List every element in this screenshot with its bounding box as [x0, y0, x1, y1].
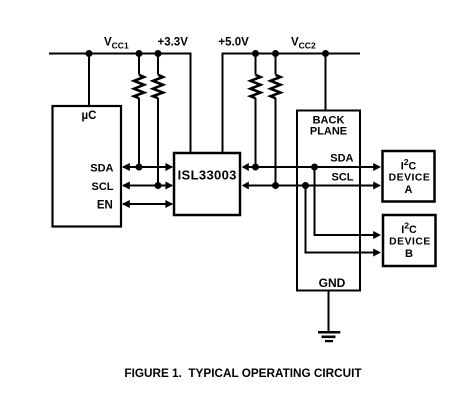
wire VCC1 rail (left supply rail, turns down to ISL33003 +3.3V pin)	[49, 54, 191, 154]
box ISL33003 U1	[174, 153, 240, 215]
wire SDA (ISL33003 through BACK PLANE to I2C DEVICE A)	[243, 166, 379, 168]
junction VCC2/R-SDA2	[252, 50, 259, 57]
svg-text:DEVICE: DEVICE	[389, 173, 431, 184]
label I2C DEVICE A	[389, 157, 431, 196]
wire SCL (ISL33003 through BACK PLANE to I2C DEVICE A)	[243, 185, 379, 187]
junction R-SDA1/SDA	[136, 164, 143, 171]
label BACK PLANE	[310, 114, 347, 137]
box I2C DEVICE B	[383, 215, 436, 266]
arrowhead SCL into ISL33003 right	[242, 182, 249, 190]
junction VCC1/R-SCL1	[155, 50, 162, 57]
arrowhead EN into uC	[122, 200, 130, 208]
arrowhead EN into ISL33003 left	[165, 200, 173, 208]
wire SCL (uC to ISL33003)	[123, 185, 172, 187]
box BACK PLANE	[297, 111, 360, 291]
arrowhead SDA into uC	[122, 163, 130, 171]
arrowhead SCL into I2C DEVICE B	[373, 249, 381, 257]
wire EN (uC to ISL33003)	[123, 203, 172, 205]
junction VCC1/R-SDA1	[136, 50, 143, 57]
junction SDA/device-B branch	[311, 164, 318, 171]
svg-text:ISL33003: ISL33003	[178, 168, 237, 183]
box uC	[53, 106, 122, 227]
ground symbol	[318, 332, 340, 341]
svg-text:SDA: SDA	[90, 163, 113, 175]
svg-text:SCL: SCL	[92, 181, 114, 193]
arrowheads	[122, 163, 381, 257]
arrowhead SCL into uC	[122, 182, 130, 190]
svg-text:EN: EN	[97, 200, 113, 212]
wire VCC1 to uC supply	[88, 54, 90, 107]
svg-text:µC: µC	[82, 110, 97, 122]
svg-text:B: B	[405, 248, 413, 260]
junction VCC2/R-SCL2	[272, 50, 279, 57]
svg-text:FIGURE 1. TYPICAL OPERATING C: FIGURE 1. TYPICAL OPERATING CIRCUIT	[124, 367, 362, 380]
junction SCL/device-B branch	[302, 182, 309, 189]
junction VCC2/backplane	[322, 50, 329, 57]
svg-text:GND: GND	[319, 276, 346, 290]
arrowhead SDA into I2C DEVICE B	[373, 231, 381, 239]
resistor R-SDA2 (VCC2 pull-up on SDA)	[251, 54, 261, 168]
wire BACK PLANE GND to ground	[328, 291, 330, 333]
arrowhead SDA into ISL33003 right	[242, 163, 249, 171]
svg-text:A: A	[405, 184, 413, 196]
wire SDA (uC to ISL33003)	[123, 166, 172, 168]
svg-text:DEVICE: DEVICE	[389, 237, 431, 248]
box I2C DEVICE A	[383, 151, 435, 202]
svg-text:+5.0V: +5.0V	[218, 37, 249, 49]
svg-text:+3.3V: +3.3V	[158, 37, 189, 49]
arrowhead SCL into I2C DEVICE A	[373, 182, 381, 190]
junction R-SCL1/SCL	[155, 182, 162, 189]
junction R-SDA2/SDA	[252, 164, 259, 171]
wire SDA branch to I2C DEVICE B	[315, 167, 380, 235]
label I2C DEVICE B	[389, 221, 431, 260]
arrowhead SDA into I2C DEVICE A	[373, 163, 381, 171]
arrowhead SCL into ISL33003 left	[165, 182, 173, 190]
resistor R-SCL1 (VCC1 pull-up on SCL)	[153, 54, 163, 186]
wire VCC2 rail (right supply rail, left end turns down to ISL33003 +5.0V pin)	[223, 54, 361, 154]
junction R-SCL2/SCL	[272, 182, 279, 189]
arrowhead SDA into ISL33003 left	[165, 163, 173, 171]
junction VCC1/uC	[86, 50, 93, 57]
wire VCC2 drop to BACK PLANE top	[325, 54, 327, 111]
svg-text:SDA: SDA	[330, 153, 353, 165]
wire SCL branch to I2C DEVICE B	[306, 186, 380, 253]
resistor R-SCL2 (VCC2 pull-up on SCL)	[271, 54, 281, 186]
junction dots	[86, 50, 330, 189]
svg-text:SCL: SCL	[332, 172, 354, 184]
resistor R-SDA1 (VCC1 pull-up on SDA)	[134, 54, 144, 168]
svg-text:PLANE: PLANE	[310, 125, 347, 137]
